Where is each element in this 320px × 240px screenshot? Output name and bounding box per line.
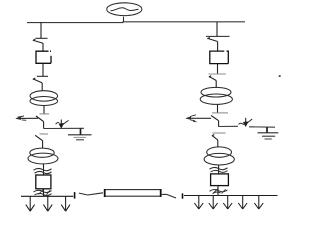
- circuit breaker box (right LV): [211, 174, 229, 186]
- load arrow R5: [254, 196, 263, 210]
- withdrawable contact arcs lower (right): [210, 189, 228, 194]
- load arrow R1: [194, 196, 203, 210]
- ground (right): [258, 127, 279, 139]
- circuit breaker box (left LV): [36, 175, 51, 189]
- ac source G: [107, 3, 142, 22]
- contact tick (left QS3): [40, 133, 49, 135]
- wire: [43, 122, 45, 129]
- wire: [43, 106, 45, 114]
- load arrow L1: [26, 196, 35, 211]
- withdrawable contact arcs lower (left): [34, 190, 52, 196]
- LV bus (left): [21, 195, 73, 197]
- wire: left feeder drop: [40, 22, 42, 38]
- load arrow L3: [61, 196, 70, 211]
- wire: [42, 63, 44, 76]
- wire: [43, 189, 45, 197]
- LV bus (right): [184, 195, 278, 197]
- wire: [218, 121, 220, 127]
- disconnector QS5 (right): [209, 73, 227, 75]
- disconnector QS1 (left): [33, 38, 48, 43]
- wire: [217, 42, 219, 52]
- stray dot: [279, 75, 281, 77]
- transformer T1 (left): [30, 91, 58, 106]
- branch wire to ground (right): [249, 126, 275, 128]
- wire: [218, 165, 220, 175]
- transformer T4 (right): [204, 147, 234, 165]
- wire: [42, 43, 44, 51]
- wire: [217, 64, 219, 74]
- contact tick (right QS6): [212, 132, 225, 134]
- fault point arrow d1 (left): [56, 120, 69, 129]
- disconnector blade (right, below T3): [211, 115, 219, 120]
- wire: [217, 140, 219, 147]
- branch wire to arrester (left): [44, 127, 84, 129]
- load arrow R3: [223, 196, 232, 210]
- tie contact cap (left): [74, 192, 76, 199]
- incoming line arrow (left): [16, 116, 38, 120]
- circuit breaker QF1 (left): [36, 51, 51, 63]
- load arrow L2: [43, 196, 52, 211]
- contact tick (left T1 secondary): [40, 113, 50, 115]
- wire: [217, 186, 219, 196]
- squiggle near arrow (right): [239, 123, 245, 124]
- withdrawable contact arcs upper (left): [34, 168, 52, 173]
- wire: [217, 104, 219, 112]
- disconnector QS5 blade (right): [209, 76, 216, 81]
- fault point arrow d2 (right): [243, 118, 252, 127]
- tie disconnect blade (right): [162, 194, 176, 198]
- disconnector QS2 (left): [33, 76, 48, 83]
- withdrawable contact arcs upper (right): [210, 167, 228, 172]
- transformer T2 (left): [28, 148, 58, 164]
- transformer T3 (right): [200, 87, 232, 104]
- ground (left): [68, 128, 92, 140]
- branch wire to arrester (right): [219, 125, 238, 127]
- main HV bus: [27, 21, 245, 24]
- load arrow R2: [209, 196, 218, 210]
- disconnector QS3 blade (left): [35, 135, 42, 140]
- wire: [42, 141, 44, 149]
- load arrow R4: [238, 196, 247, 210]
- disconnector QS6 blade (right): [212, 135, 218, 141]
- wire: [41, 83, 43, 91]
- disconnector QS4 (right): [206, 36, 230, 41]
- circuit breaker QF2 (right): [210, 51, 229, 64]
- wire: [215, 81, 217, 88]
- tie disconnect blade (left): [79, 193, 103, 195]
- tie reactor / cable box: [105, 189, 161, 197]
- wire: right feeder drop: [216, 22, 218, 36]
- disconnector blade (left, below T1): [36, 116, 44, 122]
- incoming line arrow (right): [186, 115, 211, 122]
- contact tick (right T3 secondary): [212, 112, 228, 114]
- wire: [43, 164, 45, 175]
- tie contact cap (right): [182, 193, 184, 198]
